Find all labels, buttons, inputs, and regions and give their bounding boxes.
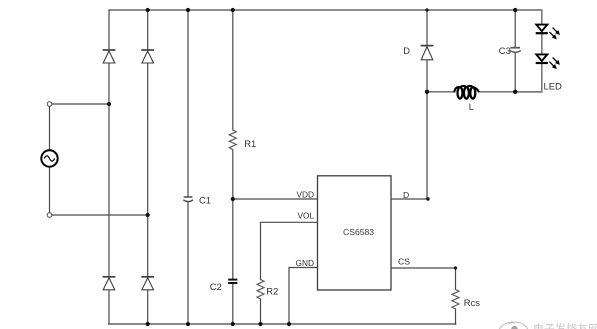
svg-text:CS: CS <box>398 257 410 267</box>
svg-text:GND: GND <box>296 258 314 268</box>
svg-text:VOL: VOL <box>298 211 315 221</box>
svg-text:电子发烧友网(图: 电子发烧友网(图 <box>533 322 597 329</box>
svg-text:C3: C3 <box>499 45 511 56</box>
svg-text:L: L <box>469 102 474 112</box>
svg-text:R2: R2 <box>266 286 278 297</box>
svg-text:LED: LED <box>544 81 562 92</box>
svg-text:R1: R1 <box>244 138 256 149</box>
svg-text:C2: C2 <box>210 281 222 292</box>
svg-text:Rcs: Rcs <box>464 297 480 308</box>
svg-text:VDD: VDD <box>297 189 315 199</box>
svg-text:C1: C1 <box>199 195 211 206</box>
svg-text:D: D <box>403 45 410 56</box>
svg-text:D: D <box>403 190 409 200</box>
svg-text:CS6583: CS6583 <box>343 227 374 237</box>
